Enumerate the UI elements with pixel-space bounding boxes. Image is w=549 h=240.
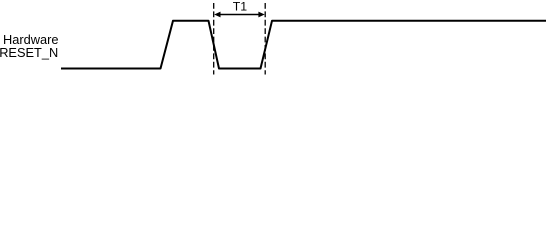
dimension arrow T1 (double-headed) [214, 12, 265, 18]
svg-text:T1: T1 [233, 0, 248, 14]
wire: RESET_N waveform (low, rise, high, fall, low, rise, high) [61, 21, 546, 69]
label T1 [233, 0, 248, 14]
dashed reference line at falling edge [213, 3, 215, 75]
signal name label: Hardware RESET_N [0, 32, 59, 60]
dashed reference line at rising edge [264, 3, 266, 75]
svg-text:RESET_N: RESET_N [0, 45, 58, 60]
